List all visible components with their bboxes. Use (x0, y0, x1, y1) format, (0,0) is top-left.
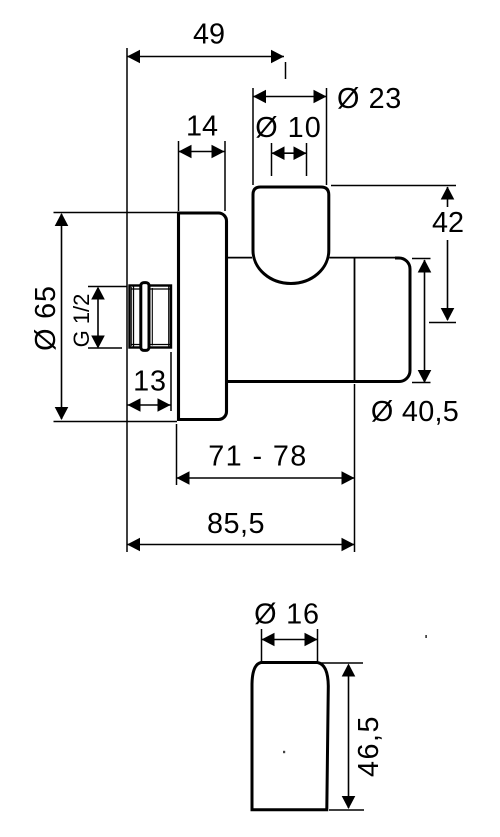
arrow Ø40,5 down (418, 370, 432, 383)
dimension Ø40,5 line (424, 260, 426, 382)
dimension 42 line upper segment (447, 187, 449, 207)
dimension Ø16 right extension (317, 629, 319, 661)
dimension Ø10 right extension (306, 143, 308, 176)
dimension 85,5 line (127, 544, 355, 546)
dimension 71-78 right extension (shared with 85,5) (354, 384, 356, 552)
svg-text:42: 42 (432, 207, 464, 239)
dimension Ø65 line (61, 214, 63, 419)
arrow 85,5 left (127, 538, 140, 552)
arrow 49 right (271, 50, 284, 64)
arrow Ø10 left (272, 146, 285, 160)
wall flange (escutcheon, Ø65) (179, 213, 227, 420)
arrow 46,5 up (342, 664, 356, 677)
arrowheads (55, 50, 455, 809)
svg-text:Ø 10: Ø 10 (255, 112, 321, 144)
svg-text:Ø 23: Ø 23 (337, 83, 402, 115)
dimension G1/2 top extension (88, 286, 127, 288)
dimension 42 extension (dome top, to the right) (331, 185, 456, 187)
svg-text:46,5: 46,5 (353, 715, 385, 777)
dimension Ø65 top extension (54, 212, 178, 214)
svg-text:85,5: 85,5 (207, 508, 265, 540)
nipple collar ring (141, 283, 149, 351)
svg-text:Ø 40,5: Ø 40,5 (371, 396, 459, 428)
arrow 42 down (441, 308, 455, 321)
nipple extra inner vertical lines (130, 287, 132, 346)
dimension 49 right extension line (285, 62, 287, 79)
nipple inner bottom line (131, 344, 170, 346)
dimension Ø40,5 bottom extension (412, 382, 431, 384)
valve body top silhouette line (thin) (226, 257, 397, 259)
arrow 42 up (441, 187, 455, 200)
dimension Ø23 right extension (326, 88, 328, 185)
svg-text:Ø 16: Ø 16 (254, 599, 320, 631)
arrow G1/2 up (91, 287, 105, 300)
dimension 42 line lower segment (447, 240, 449, 320)
dimension 13 line (128, 404, 171, 406)
dimension 71-78 left extension (176, 424, 178, 485)
arrow 14 left (179, 145, 192, 159)
svg-text:14: 14 (186, 111, 218, 143)
dimension G1/2 bottom extension (88, 347, 122, 349)
arrow Ø16 right (305, 633, 318, 647)
dimension Ø23 left extension (252, 88, 254, 185)
arrow 14 right (212, 145, 225, 159)
stray scan dot near Ø16 (425, 635, 427, 638)
handle (bottom part) (252, 663, 328, 810)
wire: long left extension line (wall face reference) (126, 48, 128, 552)
svg-text:G 1/2: G 1/2 (69, 294, 94, 348)
nipple left inner vertical (133, 286, 135, 347)
arrow 13 left (128, 398, 141, 412)
arrow G1/2 down (91, 336, 105, 349)
arrow Ø23 left (253, 90, 266, 104)
dimension 46,5 line (348, 665, 350, 808)
arrow 71-78 right (342, 471, 355, 485)
dimension Ø23 line (253, 96, 327, 98)
nipple inner top line (131, 288, 170, 290)
dimension Ø10 left extension (271, 143, 273, 176)
dimension 14 line (179, 151, 225, 153)
dimension 46,5 bottom extension (329, 809, 364, 811)
arrow 46,5 down (342, 796, 356, 809)
dimension Ø40,5 top extension (412, 258, 431, 260)
stray scan dot inside handle (283, 751, 285, 753)
svg-text:Ø 65: Ø 65 (30, 285, 62, 351)
dimension 14 right extension (224, 141, 226, 211)
body/cylinder divider line (354, 258, 356, 381)
dimension 71-78 line (177, 477, 355, 479)
svg-text:49: 49 (193, 19, 225, 51)
G1/2 threaded nipple outer rect (130, 286, 172, 348)
dimension 14 left extension (178, 141, 180, 211)
arrow Ø40,5 up (418, 260, 432, 273)
dimension 13 right extension (170, 352, 172, 411)
arrow Ø65 up (55, 213, 69, 226)
nipple right inner vertical (168, 287, 170, 347)
arrow 71-78 left (177, 471, 190, 485)
dimension Ø10 line (272, 152, 307, 154)
arrow Ø65 down (55, 407, 69, 420)
dimension Ø16 left extension (261, 629, 263, 661)
dimension 42 tick at valve centerline (429, 322, 456, 324)
arrow Ø16 left (262, 633, 275, 647)
arrow Ø23 right (314, 90, 327, 104)
dimension 46,5 top extension (320, 662, 363, 664)
dome (Ø23 top connection) (253, 187, 329, 283)
arrow Ø10 right (294, 146, 307, 160)
arrow 49 left (127, 50, 140, 64)
dimension Ø65 bottom extension (54, 421, 178, 423)
valve body main block outline (226, 258, 410, 382)
svg-text:13: 13 (133, 366, 167, 398)
dimension Ø16 line (262, 639, 318, 641)
svg-text:71 - 78: 71 - 78 (208, 441, 307, 473)
dimension G1/2 line (97, 288, 99, 347)
arrow 13 right (158, 398, 171, 412)
arrow 85,5 right (342, 538, 355, 552)
dimension 49 line (127, 56, 284, 58)
